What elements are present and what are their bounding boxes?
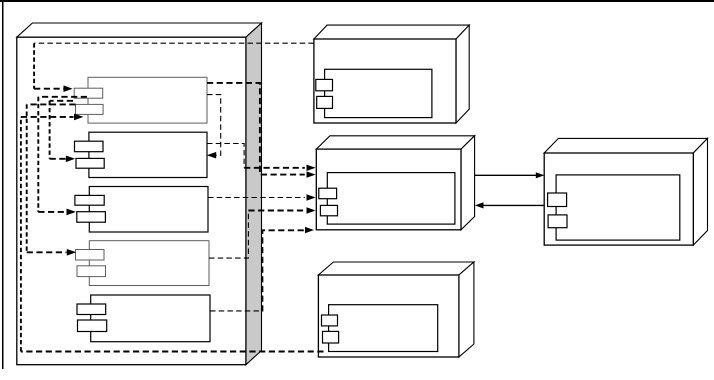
arrowhead into N3 (307, 207, 316, 213)
wire: C4 to N3 (dashed) (209, 211, 248, 259)
node N4 right face (693, 138, 707, 245)
arrowhead into N3 right edge (475, 202, 484, 208)
arrowhead into C2 tab2 (66, 156, 75, 163)
wire: N5 to C1 tab2 (dashed, big loop) (21, 351, 324, 353)
component C3 (in N1) (75, 187, 208, 233)
component C5 (in N1) (77, 295, 210, 342)
component C4 (in N1) (76, 241, 210, 286)
node N2 right face (456, 25, 469, 123)
arrowhead into N3 bottom corner (305, 227, 314, 233)
component C1 (in N1) (74, 77, 207, 123)
wire: C1 to C2 (dashed, right side) (207, 95, 221, 156)
wire: C1 to N3 (dashed via gray face) (207, 83, 305, 175)
component C6 (in N2) (316, 69, 432, 117)
node N1 (large left node) top face (17, 23, 262, 37)
arrowhead into C2 right edge (207, 152, 216, 159)
arrowhead into N3 left edge upper (307, 165, 316, 171)
node N2 front face (314, 39, 456, 123)
wire: C5 to N3 (dashed, up right) (210, 310, 262, 312)
node N4 (right) top face (544, 138, 707, 153)
arrowhead into N4 (536, 172, 545, 178)
component C7 (in N3) (319, 173, 455, 225)
wire: C1 to C3 (dashed, down left side) (38, 96, 87, 98)
frame top border (0, 0, 714, 2)
node N2 (top middle) top face (314, 25, 469, 39)
node N5 front face (318, 275, 459, 357)
arrowhead into N3 left edge (307, 171, 316, 177)
node N1 right face (gray) (246, 23, 262, 365)
arrowhead into C4 tab1 (67, 249, 76, 256)
node N3 front face (316, 149, 461, 230)
node N4 front face (544, 153, 693, 245)
wire: N3 to N4 (solid association) (475, 174, 537, 176)
node N1 front face (17, 37, 246, 365)
wire: C1 to C2 (dashed, left side) (50, 100, 73, 102)
node N3 right face (461, 136, 475, 230)
frame left border (2, 0, 4, 369)
component C8 (in N4) (548, 175, 680, 240)
arrowhead into C1 tab1 (64, 85, 73, 92)
wire: N4 to N3 (solid association) (483, 204, 545, 206)
wire: N2 to C1 tab1 (dashed dependency) (34, 42, 314, 44)
wire: C3 to N3 (dashed straight) (208, 197, 305, 199)
arrowhead into C1 tab2 (74, 114, 84, 121)
arrowhead into C3 tab2 (67, 209, 77, 216)
component C9 (in N5) (322, 305, 438, 352)
component C2 (in N1) (75, 132, 208, 177)
wire: C1 to C4 (dashed, left side) (27, 103, 76, 105)
node N3 (middle) top face (316, 136, 474, 149)
node N5 right face (459, 262, 474, 357)
node N5 (bottom middle) top face (318, 262, 474, 275)
wire: C2 to N3 (dashed) (207, 144, 244, 168)
arrowhead into N3 (307, 194, 316, 200)
